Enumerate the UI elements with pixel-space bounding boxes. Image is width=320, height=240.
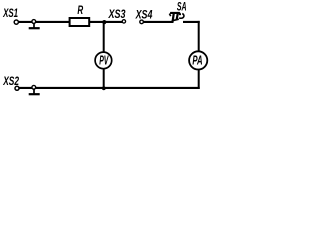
plug pin symbol bottom (circle with T below): [29, 85, 40, 94]
socket XS1 terminal circle: [14, 20, 18, 24]
ammeter PA: [189, 51, 207, 69]
wire top: resistor to XS3 terminal: [90, 21, 124, 23]
wire top right: switch to corner: [183, 21, 200, 23]
svg-text:SA: SA: [177, 0, 187, 14]
svg-text:XS3: XS3: [108, 7, 126, 21]
junction top (node to PV): [102, 20, 106, 24]
plug pin symbol top (circle with T below): [29, 20, 40, 29]
svg-text:XS4: XS4: [135, 7, 153, 21]
wire PV vertical lower: [103, 69, 105, 88]
wire PV vertical upper: [103, 22, 105, 53]
wire right vertical upper: corner to PA: [198, 21, 200, 52]
svg-text:XS2: XS2: [3, 74, 20, 88]
svg-text:PV: PV: [99, 53, 109, 67]
svg-text:PA: PA: [192, 54, 202, 68]
wire bottom: XS2 to bottom-right corner: [19, 87, 200, 89]
junction bottom (node to PV): [102, 86, 106, 90]
svg-text:XS1: XS1: [2, 6, 18, 20]
svg-text:R: R: [77, 3, 83, 17]
switch SA: [169, 12, 184, 22]
socket XS4 terminal circle: [140, 20, 144, 24]
voltmeter PV: [95, 52, 112, 69]
resistor R: [70, 18, 90, 26]
socket XS2 terminal circle: [15, 86, 19, 90]
wire right vertical lower: PA to bottom corner: [198, 70, 200, 89]
wire top: XS4 to switch: [144, 21, 174, 23]
socket XS3 terminal circle: [122, 20, 125, 23]
wire top: XS1 to resistor: [19, 21, 70, 23]
